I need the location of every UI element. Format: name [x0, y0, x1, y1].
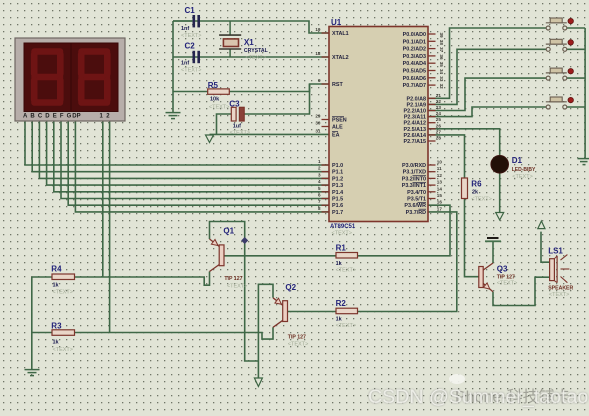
- pin PSEN 29: [315, 114, 329, 120]
- wire left crystal ground rail: [172, 21, 174, 112]
- label R3: [51, 322, 73, 354]
- svg-text:15: 15: [437, 193, 443, 198]
- wire P2.5 to LED D1: [428, 129, 500, 156]
- LED D1: [491, 156, 509, 174]
- wire R3 net to Q2 collector: [32, 327, 273, 339]
- svg-text:R6: R6: [471, 180, 482, 189]
- svg-text:5: 5: [318, 186, 321, 191]
- svg-text:P1.1: P1.1: [332, 170, 343, 176]
- svg-text:CSDN @Summer_taotao: CSDN @Summer_taotao: [368, 386, 588, 408]
- svg-text:P0.4/AD4: P0.4/AD4: [403, 61, 426, 67]
- svg-text:XTAL1: XTAL1: [332, 31, 349, 37]
- svg-text:<TEXT>: <TEXT>: [288, 342, 308, 348]
- svg-text:R2: R2: [336, 299, 347, 308]
- svg-text:<TEXT>: <TEXT>: [53, 290, 73, 296]
- svg-text:1k: 1k: [53, 340, 60, 346]
- svg-text:P3.2/INT0: P3.2/INT0: [402, 176, 426, 182]
- svg-text:35: 35: [439, 62, 444, 68]
- svg-text:P3.7/RD: P3.7/RD: [406, 210, 426, 216]
- svg-text:<TEXT>: <TEXT>: [332, 231, 352, 237]
- svg-text:<TEXT>: <TEXT>: [246, 55, 266, 61]
- wire display segment C to P1.2: [39, 121, 329, 178]
- wire Q2 emitter branch: [258, 284, 273, 378]
- svg-text:1k: 1k: [336, 261, 343, 267]
- svg-text:<TEXT>: <TEXT>: [336, 323, 356, 329]
- wire Q3 collector to ground bars: [492, 242, 494, 263]
- svg-text:P0.6/AD6: P0.6/AD6: [403, 76, 426, 82]
- svg-text:<TEXT>: <TEXT>: [497, 281, 517, 287]
- label Q1: [223, 227, 247, 290]
- svg-text:<TEXT>: <TEXT>: [336, 268, 356, 274]
- svg-text:XTAL2: XTAL2: [332, 55, 349, 61]
- label X1: [244, 38, 269, 61]
- label C2: [181, 42, 201, 74]
- ground arrow Q1 Q2 emitters: [254, 378, 262, 387]
- svg-text:Q2: Q2: [285, 283, 296, 292]
- svg-text:33: 33: [439, 76, 444, 82]
- pin ALE 30: [315, 121, 329, 127]
- svg-text:U1: U1: [331, 18, 342, 27]
- svg-text:<TEXT>: <TEXT>: [181, 33, 201, 39]
- wire RST net through R5: [173, 84, 329, 92]
- svg-text:P2.3/A11: P2.3/A11: [404, 115, 426, 121]
- svg-text:P0.3/AD3: P0.3/AD3: [403, 54, 426, 60]
- ground bars above Q3: [485, 238, 501, 241]
- svg-text:P1.3: P1.3: [332, 183, 343, 189]
- label C1: [181, 6, 201, 39]
- svg-text:P1.5: P1.5: [332, 197, 343, 203]
- svg-text:11: 11: [437, 166, 442, 171]
- ground arrow below LED D1: [496, 213, 504, 221]
- svg-text:P3.3/INT1: P3.3/INT1: [402, 183, 426, 189]
- svg-text:34: 34: [439, 69, 444, 75]
- speaker LS1: [550, 255, 570, 283]
- svg-text:13: 13: [437, 180, 443, 185]
- svg-text:TIP 127: TIP 127: [288, 335, 306, 341]
- wire C3 minus plate branch: [217, 114, 232, 134]
- pin names right column: [402, 32, 426, 216]
- capacitor C2: [193, 51, 201, 63]
- svg-text:1uf: 1uf: [233, 124, 241, 130]
- wire R4 net: [32, 272, 210, 286]
- pins P3.0-P3.7 stubs 10-17: [428, 165, 436, 199]
- wire display digit 2 to R3 net: [109, 121, 111, 333]
- ground left rail: [25, 370, 40, 376]
- svg-text:R3: R3: [51, 322, 62, 331]
- svg-text:16: 16: [437, 200, 443, 205]
- wire display digit 1 to R4 net: [102, 121, 104, 277]
- pin XTAL1 19: [315, 27, 329, 33]
- wire button 3 to P2.2: [428, 78, 546, 110]
- svg-text:<TEXT>: <TEXT>: [53, 347, 73, 353]
- pins P0.0-P0.7 stubs 39-32: [428, 34, 436, 85]
- push button 1: [546, 18, 574, 30]
- svg-text:<TEXT>: <TEXT>: [209, 105, 229, 111]
- svg-text:3: 3: [318, 172, 321, 177]
- svg-text:P1.6: P1.6: [332, 203, 343, 209]
- svg-text:EA: EA: [332, 132, 340, 138]
- resistor R1: [336, 253, 358, 259]
- wire display segment D to P1.3: [47, 121, 329, 185]
- wire button 2 to P2.1: [428, 49, 546, 104]
- svg-text:<TEXT>: <TEXT>: [512, 174, 532, 180]
- wire display segment B to P1.1: [32, 121, 329, 172]
- svg-text:R5: R5: [208, 81, 219, 90]
- svg-text:21: 21: [436, 93, 442, 98]
- svg-text:25: 25: [436, 117, 442, 122]
- svg-text:P1.7: P1.7: [332, 210, 343, 216]
- svg-text:6: 6: [318, 193, 321, 198]
- svg-text:<TEXT>: <TEXT>: [227, 284, 247, 290]
- svg-text:DP: DP: [72, 114, 80, 120]
- svg-text:P1.2: P1.2: [332, 176, 343, 182]
- svg-text:19: 19: [315, 27, 321, 32]
- wire VCC arrow to speaker top: [541, 232, 550, 263]
- pin RST 9: [318, 78, 329, 84]
- label C3: [229, 100, 250, 137]
- svg-text:P0.5/AD5: P0.5/AD5: [403, 69, 426, 75]
- pins P2.0-P2.7 stubs 21-28: [428, 98, 436, 141]
- label R2: [336, 299, 356, 329]
- svg-text:C2: C2: [185, 42, 196, 51]
- wire button 4 to P2.3: [428, 107, 546, 117]
- label LS1: [548, 247, 573, 299]
- label R6: [471, 180, 492, 203]
- svg-text:P1.4: P1.4: [332, 190, 343, 196]
- push button 2: [546, 39, 574, 51]
- svg-text:8: 8: [318, 206, 321, 211]
- svg-text:R1: R1: [336, 244, 347, 253]
- svg-text:27: 27: [436, 129, 442, 134]
- svg-text:AT89C51: AT89C51: [330, 224, 356, 230]
- svg-text:39: 39: [439, 33, 444, 39]
- svg-text:32: 32: [439, 84, 444, 90]
- svg-text:31: 31: [315, 128, 321, 133]
- svg-text:P2.5/A13: P2.5/A13: [404, 127, 426, 133]
- svg-text:PSEN: PSEN: [332, 118, 347, 124]
- wire LED cathode to ground arrow: [499, 173, 501, 213]
- label Q2: [285, 283, 308, 348]
- wire left ground rail: [31, 277, 33, 369]
- svg-text:10k: 10k: [210, 97, 220, 103]
- label R5: [208, 81, 230, 111]
- svg-text:P2.2/A10: P2.2/A10: [404, 109, 426, 115]
- svg-text:4: 4: [318, 179, 321, 184]
- svg-text:1: 1: [318, 159, 321, 164]
- svg-text:P3.5/T1: P3.5/T1: [407, 197, 426, 203]
- svg-text:1k: 1k: [336, 317, 343, 323]
- svg-text:18: 18: [315, 51, 321, 56]
- svg-text:P0.7/AD7: P0.7/AD7: [403, 83, 426, 89]
- resistor R2: [336, 308, 358, 314]
- svg-text:30: 30: [315, 121, 321, 126]
- svg-text:<TEXT>: <TEXT>: [549, 292, 569, 298]
- 7-segment display: [15, 38, 125, 121]
- svg-text:<TEXT>: <TEXT>: [471, 197, 491, 203]
- wire P2.6 to R6 to Q3 base: [428, 135, 479, 277]
- svg-text:R4: R4: [51, 265, 62, 274]
- svg-text:P2.6/A14: P2.6/A14: [404, 133, 426, 139]
- label R4: [51, 265, 73, 296]
- svg-text:23: 23: [436, 105, 442, 110]
- resistor R6 vertical: [462, 178, 468, 199]
- svg-text:10: 10: [437, 160, 443, 165]
- capacitor C3 electrolytic: [231, 107, 244, 121]
- ground crystal rail: [166, 113, 181, 119]
- svg-text:P3.1/TXD: P3.1/TXD: [403, 170, 426, 176]
- wire C2 net to XTAL2: [173, 56, 329, 58]
- svg-text:TIP 127: TIP 127: [224, 276, 242, 282]
- svg-text:<TEXT>: <TEXT>: [181, 68, 201, 74]
- wire C1 net to XTAL1: [173, 21, 329, 33]
- svg-text:C3: C3: [229, 100, 240, 109]
- svg-text:P2.4/A12: P2.4/A12: [404, 121, 426, 127]
- svg-text:14: 14: [437, 186, 443, 191]
- wire button 1 to P2.0: [428, 28, 546, 98]
- watermark cloud: [449, 374, 465, 384]
- svg-text:12: 12: [437, 173, 443, 178]
- svg-text:P2.7/A15: P2.7/A15: [404, 139, 426, 145]
- wire display segment A to P1.0: [25, 121, 329, 165]
- svg-text:TIP 127: TIP 127: [497, 274, 515, 280]
- op-amp U1 microcontroller AT89C51 body: [329, 27, 428, 222]
- svg-text:2: 2: [318, 166, 321, 171]
- svg-text:P3.0/RXD: P3.0/RXD: [402, 163, 426, 169]
- svg-text:28: 28: [436, 136, 442, 141]
- svg-text:ABCDEFG: ABCDEFG: [23, 114, 74, 120]
- power arrow VCC speaker: [538, 221, 545, 229]
- svg-text:LS1: LS1: [548, 247, 563, 256]
- wire display DP to P1.7: [75, 121, 329, 212]
- svg-text:2k: 2k: [472, 190, 479, 196]
- svg-text:P0.1/AD1: P0.1/AD1: [403, 39, 426, 45]
- crystal X1: [219, 21, 241, 57]
- pins P1.0-P1.7 1-8: [322, 165, 330, 212]
- svg-text:RST: RST: [332, 82, 343, 88]
- svg-text:24: 24: [436, 111, 442, 116]
- svg-text:Q3: Q3: [497, 265, 508, 274]
- label Q3: [497, 265, 517, 287]
- wire buttons right rail to ground: [567, 28, 585, 158]
- pin EA 31: [315, 128, 321, 133]
- push button 3: [546, 68, 574, 80]
- svg-text:X1: X1: [244, 38, 254, 47]
- svg-text:22: 22: [436, 99, 442, 104]
- wire RST to C3 plus plate: [244, 84, 309, 114]
- svg-text:17: 17: [437, 206, 443, 211]
- svg-text:P3.6/WR: P3.6/WR: [404, 203, 426, 209]
- svg-text:SPEAKER: SPEAKER: [548, 286, 573, 292]
- wire Q3 emitter to speaker: [493, 277, 550, 305]
- svg-text:C1: C1: [185, 6, 196, 15]
- svg-text:1nf: 1nf: [181, 26, 189, 32]
- svg-text:26: 26: [436, 123, 442, 128]
- svg-text:38: 38: [439, 40, 444, 46]
- ground buttons rail: [578, 159, 589, 165]
- svg-text:ALE: ALE: [332, 125, 343, 131]
- svg-text:1nf: 1nf: [181, 61, 189, 67]
- label R1: [336, 244, 356, 274]
- wire Q2 base through R2 to P3.7: [287, 212, 457, 312]
- svg-text:9: 9: [318, 78, 321, 83]
- svg-text:<TEXT>: <TEXT>: [230, 130, 250, 136]
- pin names left column: [332, 31, 349, 216]
- svg-text:36: 36: [439, 54, 444, 60]
- junction node Q1 emitter: [241, 237, 248, 244]
- transistor Q1: [210, 239, 225, 272]
- svg-text:P0.2/AD2: P0.2/AD2: [403, 47, 426, 53]
- svg-text:12: 12: [100, 114, 113, 120]
- svg-text:P2.0/A8: P2.0/A8: [407, 96, 426, 102]
- svg-text:37: 37: [439, 47, 444, 53]
- svg-text:D1: D1: [512, 156, 523, 165]
- svg-text:1k: 1k: [53, 283, 60, 289]
- wire Q1 base through R1 to P3.6: [224, 205, 450, 256]
- wire EA net: [210, 133, 330, 135]
- capacitor C1: [173, 15, 200, 27]
- wire display segment E to P1.4: [54, 121, 329, 192]
- svg-text:P0.0/AD0: P0.0/AD0: [403, 32, 426, 38]
- resistor R4: [52, 274, 75, 280]
- transistor Q3: [479, 263, 493, 292]
- resistor R5: [208, 89, 230, 94]
- transistor Q2: [273, 298, 288, 328]
- resistor R3: [52, 330, 75, 336]
- svg-text:CRYSTAL: CRYSTAL: [244, 48, 269, 54]
- svg-text:LED-BIBY: LED-BIBY: [512, 167, 536, 173]
- svg-text:P1.0: P1.0: [332, 163, 343, 169]
- wire display segment F to P1.5: [61, 121, 329, 199]
- wire Q1 emitter loop: [210, 222, 259, 362]
- svg-text:7: 7: [318, 199, 321, 204]
- push button 4: [546, 97, 574, 109]
- svg-text:Q1: Q1: [223, 227, 234, 236]
- svg-text:P2.1/A9: P2.1/A9: [407, 102, 426, 108]
- svg-text:P3.4/T0: P3.4/T0: [407, 190, 426, 196]
- wire display segment G to P1.6: [68, 121, 329, 205]
- pin XTAL2 18: [315, 51, 329, 57]
- label D1: [512, 156, 536, 180]
- ground arrow EA net: [206, 135, 214, 143]
- svg-text:29: 29: [315, 114, 321, 119]
